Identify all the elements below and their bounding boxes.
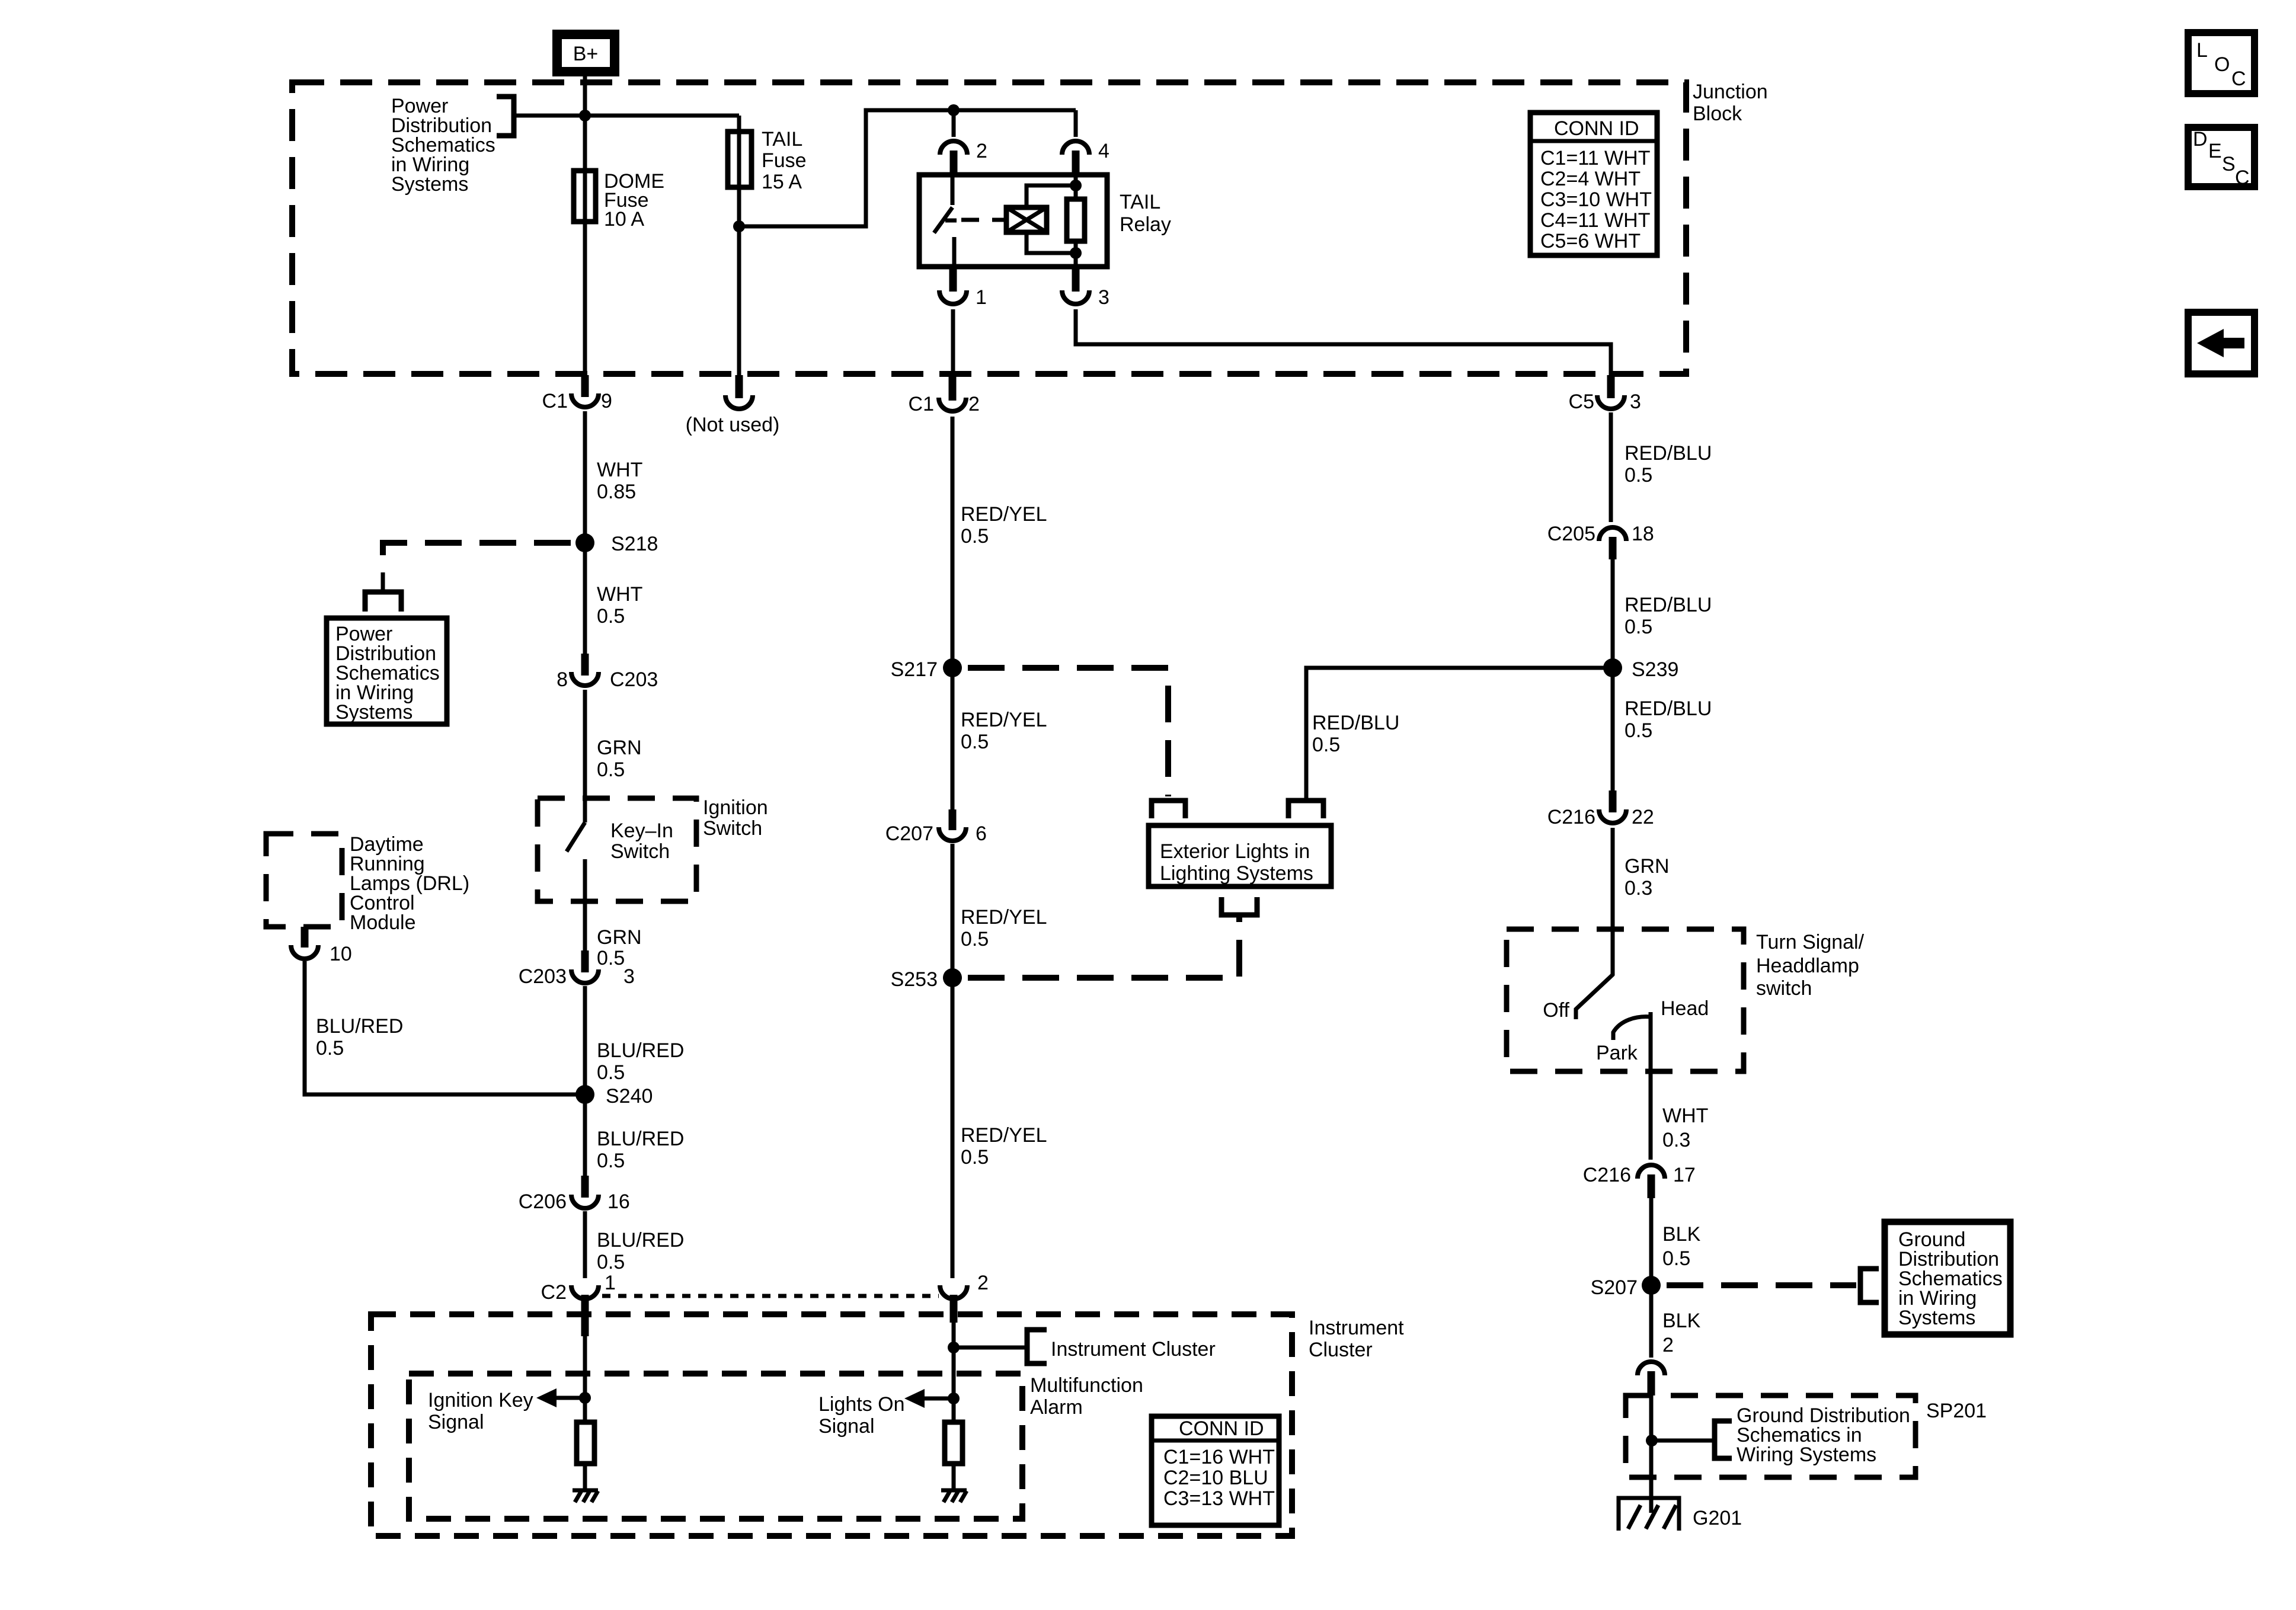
svg-text:GRN: GRN [1625, 855, 1670, 878]
svg-text:0.5: 0.5 [597, 1061, 625, 1084]
wire BLU/RED 0.5 segment C206 to C2-1 [583, 1211, 587, 1278]
svg-text:TAIL: TAIL [762, 128, 802, 151]
DESC legend box [2188, 127, 2255, 189]
connector C5-3 [1569, 375, 1641, 413]
svg-text:C205: C205 [1547, 523, 1595, 545]
bracket above exterior lights box right [1288, 801, 1323, 818]
svg-text:2: 2 [1662, 1334, 1674, 1356]
CONN ID table (instrument cluster) [1152, 1416, 1279, 1525]
svg-text:C3=10 WHT: C3=10 WHT [1540, 188, 1652, 211]
svg-text:Exterior Lights in: Exterior Lights in [1160, 840, 1310, 863]
svg-text:Fuse: Fuse [762, 149, 807, 172]
B+ power feed box [557, 34, 615, 72]
wire from TAIL fuse to relay feed riser [739, 110, 1076, 226]
svg-text:16: 16 [607, 1190, 630, 1213]
svg-text:Switch: Switch [703, 817, 762, 840]
svg-text:2: 2 [976, 140, 987, 162]
connector C205-18 [1547, 523, 1654, 559]
label BLK 0.5 [1662, 1223, 1701, 1270]
svg-text:C216: C216 [1547, 806, 1595, 828]
multifunction alarm dashed box [409, 1374, 1022, 1519]
svg-text:S: S [2222, 153, 2236, 175]
DRL module dashed box [266, 834, 342, 927]
bracket to Power Distribution note [497, 97, 514, 136]
svg-text:C2=4 WHT: C2=4 WHT [1540, 168, 1641, 190]
wire BLU/RED 0.5 from DRL to S240 [305, 961, 576, 1094]
wire BLU/RED 0.5 segment S240 to C206 [583, 1094, 587, 1176]
svg-text:Ignition: Ignition [703, 796, 768, 819]
svg-text:0.5: 0.5 [961, 928, 989, 950]
svg-text:Signal: Signal [428, 1411, 484, 1433]
ground (ignition key) [573, 1490, 598, 1502]
node coil-bottom junction [1070, 247, 1082, 259]
svg-text:Lights On: Lights On [818, 1393, 905, 1416]
headlamp switch Park arc contact [1613, 1017, 1651, 1040]
node: B+ bus junction [579, 110, 591, 121]
wire B+ down to main bus [583, 76, 587, 116]
svg-text:S253: S253 [891, 968, 938, 991]
label BLU/RED 0.5 (DRL branch) [316, 1015, 403, 1060]
svg-text:Head: Head [1661, 997, 1709, 1020]
svg-text:Systems: Systems [335, 701, 412, 724]
svg-text:C1: C1 [542, 390, 568, 412]
LOC legend box [2188, 33, 2255, 94]
relay switch stub to pin 1 [952, 237, 957, 267]
label Multifunction Alarm [1030, 1374, 1143, 1419]
relay pin 4 connector [1062, 140, 1109, 175]
svg-text:Headdlamp: Headdlamp [1756, 955, 1859, 977]
relay switch fixed tick [945, 219, 957, 223]
label RED/BLU 0.5 (exterior branch) [1312, 712, 1399, 756]
wire resistor to ground [583, 1464, 587, 1490]
splice S240 [575, 1085, 653, 1108]
svg-text:WHT: WHT [1662, 1105, 1708, 1127]
relay switch blade [934, 207, 952, 233]
node: TAIL fuse output junction [733, 220, 745, 232]
node lights-on branch dot [948, 1393, 960, 1404]
svg-text:BLU/RED: BLU/RED [597, 1128, 684, 1150]
svg-text:RED/BLU: RED/BLU [1625, 442, 1712, 465]
wire TAIL fuse branch vertical [737, 116, 741, 375]
svg-text:BLU/RED: BLU/RED [597, 1039, 684, 1062]
svg-text:L: L [2196, 39, 2208, 62]
label BLU/RED 0.5 [597, 1128, 684, 1172]
svg-text:RED/YEL: RED/YEL [961, 906, 1047, 929]
wire RED/BLU 0.5 segment C205 to S239 [1611, 559, 1615, 659]
svg-text:SP201: SP201 [1926, 1400, 1987, 1422]
dashed ref wire from S253 to exterior lights bottom [968, 917, 1239, 978]
relay coil [1006, 207, 1047, 232]
svg-text:C216: C216 [1583, 1164, 1631, 1186]
svg-text:Park: Park [1596, 1042, 1638, 1064]
wire RED/YEL 0.5 segment C207 to S253 [951, 844, 955, 969]
label RED/YEL 0.5 [961, 906, 1047, 950]
label WHT 0.3 [1662, 1105, 1708, 1151]
svg-text:Lighting Systems: Lighting Systems [1160, 862, 1313, 885]
splice S239 [1603, 658, 1678, 681]
wire RED/BLU 0.5 from S239 to exterior lights [1306, 668, 1613, 801]
svg-text:C203: C203 [519, 965, 567, 988]
label RED/BLU 0.5 [1625, 594, 1712, 638]
svg-text:(Not used): (Not used) [686, 414, 780, 436]
note box Power Distribution Schematics in Wiring Systems [327, 618, 447, 724]
node coil-top junction [1070, 180, 1082, 191]
wire BLU/RED 0.5 segment C203-3 to S240 [583, 986, 587, 1086]
bracket SP201 ground distribution note [1715, 1421, 1732, 1458]
wire DOME fuse branch vertical [583, 116, 587, 375]
wire coil top to pin4 line [1027, 185, 1076, 207]
connector DRL pin 10 [291, 927, 352, 965]
splice S217 [891, 658, 962, 681]
stem to bracket [381, 572, 385, 592]
svg-text:WHT: WHT [597, 459, 642, 481]
connector (Not used) [686, 375, 780, 436]
svg-text:10 A: 10 A [604, 208, 644, 231]
label Daytime Running Lamps (DRL) Control Module [350, 833, 469, 934]
wire to instrument cluster bracket [954, 1346, 1027, 1350]
relay pin 2 connector [940, 140, 987, 175]
label BLU/RED 0.5 [597, 1039, 684, 1084]
svg-text:Systems: Systems [391, 173, 468, 196]
svg-text:9: 9 [601, 390, 612, 412]
SP201 dashed box [1626, 1395, 1916, 1477]
node: relay pin2 branch junction [948, 104, 960, 116]
svg-text:0.5: 0.5 [1312, 734, 1340, 756]
exterior lights note box [1149, 825, 1331, 886]
splice S218 [575, 533, 658, 555]
svg-text:C3=13 WHT: C3=13 WHT [1163, 1487, 1275, 1510]
svg-text:0.5: 0.5 [597, 1251, 625, 1273]
svg-text:BLU/RED: BLU/RED [316, 1015, 403, 1038]
connector C203-3 [519, 950, 635, 988]
wire RED/YEL 0.5 segment C1-2 to S217 [951, 417, 955, 659]
label GRN 0.5 lower [597, 926, 642, 969]
label Key-In Switch [610, 820, 673, 863]
wire relay pin 4 drop [1074, 110, 1078, 137]
svg-text:0.5: 0.5 [961, 1146, 989, 1169]
connector C1-2 [909, 375, 980, 415]
svg-text:WHT: WHT [597, 583, 642, 606]
svg-text:C2=10 BLU: C2=10 BLU [1163, 1467, 1268, 1489]
connector C216-17 [1583, 1164, 1696, 1198]
label Power Distribution Schematics in Wiring Systems [391, 95, 495, 196]
relay TAIL Relay box [919, 175, 1171, 267]
splice S253 [891, 968, 962, 991]
headlamp switch blade [1576, 974, 1613, 1019]
key-in switch blade [567, 822, 585, 852]
svg-text:6: 6 [976, 822, 987, 845]
svg-text:0.5: 0.5 [1625, 719, 1652, 742]
svg-text:Off: Off [1543, 999, 1569, 1022]
label RED/YEL 0.5 [961, 1124, 1047, 1169]
label RED/BLU 0.5 [1625, 697, 1712, 742]
ground (lights on) [941, 1490, 967, 1502]
relay pin 1 connector [939, 267, 987, 309]
svg-text:Instrument: Instrument [1309, 1317, 1404, 1339]
svg-text:C: C [2235, 167, 2250, 189]
wire SP201 to bracket [1652, 1439, 1715, 1443]
svg-text:0.85: 0.85 [597, 481, 636, 503]
svg-text:S239: S239 [1632, 658, 1678, 681]
resistor ignition key [577, 1422, 594, 1464]
svg-text:0.5: 0.5 [597, 605, 625, 628]
label Ignition Key Signal [428, 1389, 533, 1433]
svg-text:C1=11 WHT: C1=11 WHT [1540, 147, 1650, 169]
svg-text:C1=16 WHT: C1=16 WHT [1163, 1446, 1275, 1468]
instrument cluster outer dashed box [371, 1314, 1292, 1536]
label RED/BLU 0.5 [1625, 442, 1712, 486]
svg-text:0.5: 0.5 [961, 731, 989, 753]
svg-text:C1: C1 [909, 393, 934, 415]
arrow Ignition Key Signal [536, 1388, 585, 1407]
node SP201 splice dot [1646, 1435, 1658, 1446]
label BLK 2 [1662, 1310, 1701, 1356]
svg-text:CONN ID: CONN ID [1179, 1417, 1264, 1440]
svg-text:S218: S218 [611, 533, 658, 555]
svg-text:CONN ID: CONN ID [1554, 117, 1639, 140]
svg-text:GRN: GRN [597, 926, 642, 949]
label Instrument Cluster (outer) [1309, 1317, 1404, 1361]
svg-text:C: C [2231, 68, 2246, 90]
back-arrow legend box [2188, 312, 2255, 374]
svg-text:0.5: 0.5 [1625, 464, 1652, 486]
label Turn Signal / Headdlamp switch [1756, 931, 1865, 1000]
svg-text:RED/YEL: RED/YEL [961, 503, 1047, 526]
wire pin2 into cluster [952, 1323, 956, 1422]
svg-text:Wiring Systems: Wiring Systems [1737, 1443, 1876, 1466]
wire relay pin3 to C5-3 riser [1076, 309, 1611, 375]
wire WHT 0.5 segment [583, 543, 587, 654]
svg-text:8: 8 [557, 668, 568, 691]
svg-text:E: E [2208, 140, 2222, 162]
wire BLK 0.5 segment [1649, 1198, 1654, 1285]
node ignition key branch dot [579, 1392, 591, 1404]
svg-text:1: 1 [605, 1272, 616, 1294]
bracket before ground distribution box [1860, 1269, 1879, 1302]
svg-text:BLU/RED: BLU/RED [597, 1229, 684, 1251]
svg-text:3: 3 [1098, 286, 1109, 309]
svg-text:3: 3 [1630, 391, 1641, 413]
svg-text:18: 18 [1632, 523, 1654, 545]
svg-text:BLK: BLK [1662, 1310, 1701, 1332]
svg-text:Relay: Relay [1120, 213, 1171, 236]
svg-text:0.5: 0.5 [1662, 1247, 1690, 1270]
ground distribution note box [1885, 1222, 2010, 1334]
wire GRN 0.5 segment [583, 690, 587, 822]
svg-text:22: 22 [1632, 806, 1654, 828]
svg-text:0.3: 0.3 [1662, 1129, 1690, 1151]
label RED/YEL 0.5 [961, 709, 1047, 753]
label WHT 0.85 [597, 459, 642, 503]
svg-text:Cluster: Cluster [1309, 1339, 1373, 1361]
svg-text:S240: S240 [606, 1085, 653, 1108]
svg-text:Systems: Systems [1898, 1307, 1975, 1329]
connector cluster pin 2 [940, 1272, 989, 1323]
svg-text:0.3: 0.3 [1625, 877, 1652, 900]
svg-text:3: 3 [623, 965, 635, 988]
svg-text:17: 17 [1673, 1164, 1696, 1186]
svg-text:B+: B+ [573, 43, 599, 65]
label WHT 0.5 [597, 583, 642, 628]
fuse TAIL 15 A [728, 128, 807, 193]
svg-text:switch: switch [1756, 977, 1812, 1000]
connector C206-16 [519, 1176, 630, 1213]
wire main bus horizontal [514, 114, 739, 118]
label GRN 0.3 [1625, 855, 1670, 900]
connector C2-1 [541, 1272, 616, 1336]
junction block dashed border [292, 82, 1686, 374]
resistor lights-on [945, 1422, 962, 1464]
wire RED/YEL 0.5 segment S217 to C207 [951, 668, 955, 809]
resistor inside relay [1067, 199, 1085, 241]
wire coil bottom to pin3 line [1027, 232, 1076, 253]
headlamp switch Head contact line [1649, 1012, 1653, 1160]
dashed ref wire from S207 to ground distribution [1667, 1282, 1856, 1288]
svg-text:10: 10 [330, 943, 352, 965]
svg-text:GRN: GRN [597, 737, 642, 759]
splice S207 [1591, 1276, 1661, 1299]
svg-text:Instrument Cluster: Instrument Cluster [1051, 1338, 1216, 1361]
svg-text:C5=6 WHT: C5=6 WHT [1540, 230, 1641, 252]
wire GRN 0.3 segment into switch [1611, 828, 1615, 975]
label Lights On Signal [818, 1393, 905, 1438]
svg-text:2: 2 [977, 1272, 989, 1294]
svg-text:O: O [2214, 53, 2230, 76]
svg-text:TAIL: TAIL [1120, 191, 1160, 213]
svg-text:C207: C207 [885, 822, 933, 845]
turn signal / headlamp switch dashed box [1507, 929, 1744, 1071]
bracket below exterior lights box [1221, 897, 1257, 915]
connector C216-22 [1547, 790, 1654, 828]
svg-text:Turn Signal/: Turn Signal/ [1756, 931, 1865, 953]
wire relay right internal line [1074, 175, 1078, 267]
relay pin 3 connector [1062, 267, 1109, 309]
svg-text:RED/BLU: RED/BLU [1625, 594, 1712, 616]
svg-text:C206: C206 [519, 1190, 567, 1213]
svg-text:Alarm: Alarm [1030, 1396, 1083, 1419]
connector C203-8 [557, 654, 658, 691]
svg-text:15 A: 15 A [762, 171, 802, 193]
svg-text:4: 4 [1098, 140, 1109, 162]
svg-text:C5: C5 [1569, 391, 1594, 413]
relay actuator dashed link [961, 218, 1006, 222]
dotted connector link C2-1 to pin 2 [602, 1294, 939, 1298]
label Ground Distribution Schematics in Wiring Systems (SP201) [1737, 1404, 1910, 1466]
connector SP201 feed [1638, 1362, 1665, 1395]
wire relay pin1 down to C1-2 [951, 309, 955, 379]
wire inside SP201 [1649, 1395, 1654, 1513]
svg-text:Key–In: Key–In [610, 820, 673, 842]
svg-text:C203: C203 [610, 668, 658, 691]
svg-text:BLK: BLK [1662, 1223, 1701, 1246]
wire BLK 2 segment [1649, 1285, 1654, 1358]
svg-text:Block: Block [1693, 103, 1742, 125]
svg-text:S217: S217 [891, 658, 938, 681]
svg-text:C4=11 WHT: C4=11 WHT [1540, 209, 1650, 232]
svg-text:RED/YEL: RED/YEL [961, 1124, 1047, 1147]
CONN ID table (junction block) [1530, 113, 1657, 255]
junction block label [1693, 81, 1768, 125]
svg-text:D: D [2193, 128, 2208, 151]
svg-text:Multifunction: Multifunction [1030, 1374, 1143, 1397]
label GRN 0.5 [597, 737, 642, 781]
svg-text:S207: S207 [1591, 1276, 1638, 1299]
label RED/YEL 0.5 [961, 503, 1047, 548]
wire RED/YEL 0.5 segment S253 to instrument cluster [951, 978, 955, 1278]
svg-text:Signal: Signal [818, 1415, 875, 1438]
svg-text:RED/YEL: RED/YEL [961, 709, 1047, 731]
svg-text:0.5: 0.5 [316, 1037, 344, 1060]
bracket instrument cluster internal [1027, 1330, 1047, 1363]
svg-text:0.5: 0.5 [597, 947, 625, 969]
svg-text:0.5: 0.5 [597, 1150, 625, 1172]
ground G201 symbol [1619, 1498, 1679, 1531]
svg-text:Junction: Junction [1693, 81, 1768, 103]
wire RED/BLU 0.5 segment S239 to C216-22 [1611, 668, 1615, 793]
svg-text:0.5: 0.5 [1625, 616, 1652, 638]
label Ignition Switch [703, 796, 768, 840]
wire resistor to ground [952, 1464, 956, 1490]
fuse DOME 10 A [574, 170, 664, 231]
bracket above exterior lights box left [1152, 801, 1185, 818]
dashed ref wire from S217 to exterior lights [968, 668, 1168, 796]
label BLU/RED 0.5 [597, 1229, 684, 1273]
svg-text:0.5: 0.5 [597, 758, 625, 781]
svg-text:Module: Module [350, 911, 416, 934]
svg-text:2: 2 [968, 393, 980, 415]
wire WHT 0.85 segment [583, 411, 587, 534]
connector C1-9 [542, 375, 612, 412]
relay switch contact from pin 2 [951, 175, 955, 205]
connector C207-6 [885, 809, 987, 845]
svg-text:1: 1 [976, 286, 987, 309]
wire RED/BLU 0.5 segment C5-3 to C205 [1609, 412, 1613, 522]
wire C2-1 into cluster [583, 1327, 587, 1422]
svg-text:G201: G201 [1693, 1507, 1742, 1529]
wire relay pin 2 drop [952, 110, 956, 137]
dashed ref wire from S218 [383, 543, 571, 572]
svg-text:Ignition Key: Ignition Key [428, 1389, 533, 1411]
bracket above Power Distribution note box [365, 592, 401, 612]
arrow Lights On Signal [904, 1389, 954, 1408]
wire below key-in switch [583, 859, 587, 950]
ignition switch dashed box [538, 798, 696, 901]
svg-text:Switch: Switch [610, 840, 670, 863]
svg-text:0.5: 0.5 [961, 525, 989, 548]
svg-text:C2: C2 [541, 1281, 567, 1304]
svg-text:RED/BLU: RED/BLU [1625, 697, 1712, 720]
node instrument cluster branch dot [948, 1342, 960, 1353]
svg-text:RED/BLU: RED/BLU [1312, 712, 1399, 734]
